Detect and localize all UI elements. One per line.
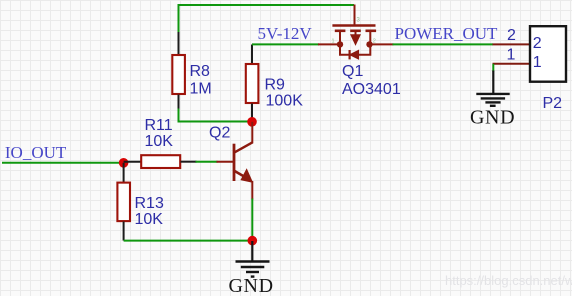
connector P2 pin 2 wire <box>493 43 531 45</box>
connector P2 pin 1 wire <box>493 63 531 65</box>
svg-text:100K: 100K <box>266 93 304 110</box>
transistor Q1 substrate arrow <box>352 32 360 44</box>
ground symbol bottom bar3 <box>246 271 259 273</box>
svg-text:2: 2 <box>507 27 516 44</box>
transistor Q2 base pin <box>217 161 235 163</box>
transistor Q1 drain vertical <box>369 31 371 44</box>
svg-text:R11: R11 <box>145 117 173 134</box>
resistor R13 pin top <box>123 163 125 183</box>
svg-text:2: 2 <box>373 39 376 45</box>
ground symbol right bar2 <box>481 97 505 99</box>
svg-text:1: 1 <box>507 47 516 64</box>
ground symbol right: stem <box>492 71 494 95</box>
resistor R8 body <box>172 55 185 94</box>
resistor R11 pin right <box>181 161 197 163</box>
resistor R9 pin top <box>251 45 253 65</box>
transistor Q2 base bar <box>233 144 236 181</box>
transistor Q1 channel bar middle <box>350 29 361 32</box>
ground symbol bottom bar1 <box>236 260 270 262</box>
svg-text:GND: GND <box>229 275 274 296</box>
svg-text:10K: 10K <box>145 133 174 150</box>
transistor Q2 emitter arrowhead <box>240 168 253 183</box>
svg-text:P2: P2 <box>543 95 563 112</box>
transistor Q1 source pin <box>318 43 340 45</box>
transistor Q1 body diode triangle <box>350 50 359 59</box>
ground symbol right bar4 <box>490 105 496 107</box>
resistor R11 body <box>141 155 180 168</box>
node: junction IO_OUT/R11/R13 <box>119 158 129 168</box>
wire: R11 to Q2 base <box>196 161 218 163</box>
transistor Q1 body diode cathode bar <box>349 50 351 59</box>
svg-text:3: 3 <box>357 18 361 24</box>
svg-text:IO_OUT: IO_OUT <box>5 143 67 162</box>
svg-text:GND: GND <box>470 107 515 129</box>
wire: IO_OUT net <box>2 162 124 164</box>
wire: P2 pin1 to ground <box>492 64 494 72</box>
svg-text:POWER_OUT: POWER_OUT <box>395 24 499 43</box>
wire: emitter to ground node <box>251 199 253 241</box>
svg-text:5V-12V: 5V-12V <box>258 24 313 43</box>
transistor Q2 collector diagonal <box>234 142 253 152</box>
node: junction R8/R9/collector <box>247 117 257 127</box>
transistor Q2 emitter pin vertical <box>251 181 253 200</box>
resistor R13 body <box>117 183 130 222</box>
svg-text:AO3401: AO3401 <box>342 81 401 98</box>
svg-text:10K: 10K <box>135 211 164 228</box>
transistor Q1 gate pin <box>354 5 356 26</box>
ground symbol bottom bar2 <box>241 266 264 268</box>
node: Q1 source junction <box>337 41 343 47</box>
svg-text:Q1: Q1 <box>342 63 363 80</box>
resistor R13 pin bottom <box>123 222 125 241</box>
transistor Q1 source vertical <box>339 31 341 44</box>
wire: gate net top horizontal <box>178 4 355 6</box>
svg-text:Q2: Q2 <box>209 125 230 142</box>
wire: 5V-12V net horizontal <box>252 43 319 45</box>
wire: R8 bottom to collector node vertical <box>178 109 180 122</box>
node: Q1 drain junction <box>366 41 372 47</box>
ground symbol bottom: stem <box>251 241 253 262</box>
svg-text:2: 2 <box>533 35 542 52</box>
transistor Q2 emitter diagonal <box>234 171 249 180</box>
svg-text:1: 1 <box>533 54 542 71</box>
svg-text:R13: R13 <box>135 195 164 212</box>
transistor Q1 body diode loop <box>340 44 370 54</box>
svg-text:R9: R9 <box>265 77 286 94</box>
node: junction emitter/R13/ground <box>248 236 258 246</box>
wire: gate net left vertical drop to R8 <box>178 5 180 33</box>
resistor R9 body <box>246 64 259 103</box>
transistor Q2 collector pin vertical <box>251 122 253 144</box>
ground symbol right bar3 <box>485 101 500 103</box>
ground symbol bottom bar4 <box>251 275 255 277</box>
wire: bottom ground net horizontal <box>124 240 253 242</box>
svg-text:1: 1 <box>332 39 335 45</box>
connector P2 body <box>530 26 566 81</box>
transistor Q1 channel bar right <box>366 29 377 32</box>
wire: R8 bottom to collector node horizontal <box>178 121 253 123</box>
svg-text:1M: 1M <box>190 81 212 98</box>
svg-text:R8: R8 <box>190 63 211 80</box>
svg-text:https://blog.csdn.net/weixin: https://blog.csdn.net/weixin <box>445 273 572 288</box>
transistor Q1 drain pin <box>369 43 394 45</box>
resistor R8 pin bottom <box>178 95 180 110</box>
ground symbol right bar1 <box>476 93 509 95</box>
transistor Q1 channel bar left <box>335 29 346 32</box>
wire: POWER_OUT net <box>393 43 494 45</box>
resistor R11 pin left <box>124 161 141 163</box>
resistor R8 pin top <box>178 32 180 55</box>
transistor Q1 gate bar <box>332 24 375 26</box>
resistor R9 pin bottom <box>251 104 253 123</box>
